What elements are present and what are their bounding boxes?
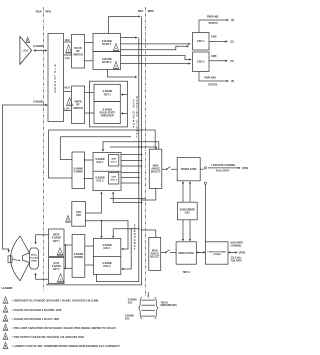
wire CDU2 PWR AND STATUS to (S) <box>199 72 228 82</box>
box MODULATOR 1 <box>177 158 200 181</box>
wire bus to X-band exc top (right) <box>113 229 139 238</box>
box CDU 1 <box>193 33 210 51</box>
svg-text:EXC 1: EXC 1 <box>104 247 112 250</box>
wire TWT join line <box>64 245 66 268</box>
wire X-TWT1 to feed (RCP) <box>36 235 49 243</box>
wire hybrid to x-exc 1 <box>85 245 94 247</box>
antenna HGA dish <box>11 236 21 281</box>
svg-text:OSC: OSC <box>76 214 81 217</box>
wire CDU1 PWR AND STATUS to (S) <box>199 20 228 33</box>
svg-text:STATUS: STATUS <box>208 84 218 87</box>
box S-BAND HYBRID <box>72 152 85 189</box>
wire hybrid to exciter 1 <box>85 159 94 161</box>
svg-text:TLM DATA: TLM DATA <box>231 260 243 263</box>
box S-BAND EXC 1 <box>95 158 105 164</box>
wire rcvr switch to rcvr 1 <box>85 41 94 43</box>
svg-text:(REDUNDANT): (REDUNDANT) <box>161 304 177 307</box>
svg-text:HGA: HGA <box>65 87 71 90</box>
box CDU 2 <box>193 52 210 72</box>
wire diplexer to xmtr switch (HGA) <box>64 90 72 92</box>
bus line 1 (VCO) with return into X-band exciters <box>96 38 138 282</box>
switch MAS2 to MOD2 <box>161 250 176 253</box>
svg-text:MODULATOR: MODULATOR <box>179 252 195 255</box>
svg-text:(RCP): (RCP) <box>53 235 60 237</box>
svg-text:= TWT OUTPUT FAILED ON VOYAGER: = TWT OUTPUT FAILED ON VOYAGER 1 IN JANU… <box>12 335 85 339</box>
wire RCVR2 to CDU2 <box>121 62 191 64</box>
svg-text:OSC 1: OSC 1 <box>110 161 117 163</box>
box XMTR RF SWITCH <box>72 86 85 124</box>
svg-text:EXC 2: EXC 2 <box>97 180 105 183</box>
svg-text:LGA: LGA <box>65 108 70 111</box>
wire USO to S-band exciter group <box>85 193 101 213</box>
svg-text:CMD: CMD <box>211 55 217 58</box>
label S-BAND EXC <box>128 299 137 305</box>
svg-text:X-BAND: X-BAND <box>52 265 61 268</box>
box USO <box>72 202 86 227</box>
svg-text:CODER: CODER <box>213 254 221 256</box>
legend item 3 <box>3 315 60 322</box>
wire exciter 2 output <box>121 177 139 179</box>
svg-text:CMD: CMD <box>211 36 217 39</box>
svg-text:CHANNEL,: CHANNEL, <box>231 245 243 248</box>
marker 5 in X-TWT 1 <box>57 248 64 256</box>
svg-text:= FAILED ON VOYAGER 2 IN APRIL: = FAILED ON VOYAGER 2 IN APRIL 1978 <box>12 308 62 312</box>
label TMU B (REDUNDANT) <box>161 302 177 307</box>
svg-text:OSC 2: OSC 2 <box>110 179 117 181</box>
svg-text:S-BAND: S-BAND <box>128 299 137 302</box>
wire S-band exc 2 to bus <box>113 193 141 203</box>
box X-BAND TWT 1 <box>49 229 65 257</box>
svg-text:DSA: DSA <box>36 10 42 14</box>
box X-BAND HYBRID <box>72 234 85 277</box>
svg-text:EXC 1: EXC 1 <box>97 161 105 164</box>
svg-text:115.2 kb/s: 115.2 kb/s <box>231 258 243 260</box>
svg-text:SUBCARRIER: SUBCARRIER <box>180 208 196 211</box>
wire rcvr group to MDS bus (top) <box>109 16 140 33</box>
svg-text:MODULATOR: MODULATOR <box>181 168 197 171</box>
svg-text:HGA: HGA <box>16 259 21 262</box>
wire S-band to HGA (left route) <box>3 105 48 252</box>
box S-BAND SOLID STATE AMPLIFIER <box>94 102 120 124</box>
svg-text:(LCP): (LCP) <box>53 263 59 265</box>
wire A: twt area to hybrid/MAS <box>49 130 156 178</box>
svg-text:CONVOLUTIONAL: CONVOLUTIONAL <box>207 250 227 253</box>
svg-text:X-BAND: X-BAND <box>125 315 134 318</box>
svg-text:PWR AND: PWR AND <box>205 76 217 79</box>
svg-text:S-BAND: S-BAND <box>33 100 43 104</box>
wire x-twt1 to hybrid <box>64 244 72 246</box>
svg-text:EXC: EXC <box>125 319 130 321</box>
svg-text:POLAR: POLAR <box>30 257 38 260</box>
wire RCVR2 to CDU2 (crossover) <box>121 55 191 59</box>
svg-text:SELECT: SELECT <box>150 256 160 259</box>
wire exciter drive to TWT 1 <box>122 94 128 96</box>
svg-text:(S): (S) <box>231 41 234 44</box>
wire A into MAS1 top <box>154 130 156 149</box>
svg-text:S-BAND: S-BAND <box>33 44 43 48</box>
divider exciter group <box>93 170 121 172</box>
box CONVOLUTIONAL CODER <box>205 242 228 264</box>
wire exciter aux line to MAS1 <box>110 147 157 149</box>
box S-BAND EXC 2 <box>95 177 105 183</box>
svg-text:(FDS): (FDS) <box>239 252 245 254</box>
marker 5 at USO <box>65 215 71 222</box>
svg-text:RCVR 2: RCVR 2 <box>102 61 112 64</box>
svg-text:OSC: OSC <box>185 212 190 214</box>
svg-text:HIGH-RATE: HIGH-RATE <box>231 242 244 245</box>
box DUAL POLAR FEED <box>30 248 39 269</box>
wire hybrid to x-exc 2 <box>85 264 94 266</box>
svg-text:HYBRID: HYBRID <box>74 256 83 259</box>
svg-text:TMU B: TMU B <box>161 302 169 304</box>
svg-text:(S): (S) <box>231 19 234 22</box>
outer box S-BAND EXCITERS <box>93 152 121 190</box>
svg-text:(S): (S) <box>231 60 234 63</box>
svg-text:(S): (S) <box>231 80 234 83</box>
box MODULATOR 2 (TMU A) <box>176 242 196 264</box>
box AUX OSC 1 <box>109 154 119 166</box>
svg-text:= TRK LOOP CAPACITOR ON VOYAGE: = TRK LOOP CAPACITOR ON VOYAGER 2 FAILED… <box>12 326 116 330</box>
label X-BAND EXC 1 <box>102 244 112 250</box>
box S-BAND TWT 1 <box>94 84 120 101</box>
legend item 2 <box>3 306 62 313</box>
marker 1 at LGA <box>25 37 30 43</box>
wire exciter group top feed / MAS1 <box>103 142 159 151</box>
wire exciter 2 output <box>121 172 139 174</box>
svg-text:SWITCH: SWITCH <box>73 53 83 56</box>
svg-text:LGA: LGA <box>65 57 70 60</box>
divider RFS/MDS (dash-dot) <box>145 7 147 296</box>
wire B: twt area to hybrid <box>60 137 131 160</box>
wire to X-band exc 2 drive <box>122 229 131 269</box>
wire SCO to MOD2 <box>182 220 184 241</box>
marker 4 in RCVR 1 <box>113 44 120 52</box>
wire RCVR2 VCO to bus (bottom exit) <box>107 70 135 78</box>
wire bus to MAS 2 top <box>142 230 156 237</box>
svg-text:SELECT: SELECT <box>151 171 161 174</box>
bus line 2 (select) with return to X-band TWT 2 <box>47 16 142 285</box>
label FREQUENCY (stacked) <box>134 224 136 251</box>
box X-BAND EXCITERS group <box>93 238 120 274</box>
svg-text:LGA: LGA <box>23 49 29 53</box>
wire xmtr switch to twt 1 <box>85 92 95 94</box>
svg-text:AUX: AUX <box>111 176 116 179</box>
wire xmtr switch to ssa <box>85 112 95 114</box>
wire crossing line <box>110 198 146 200</box>
svg-text:TWT 1: TWT 1 <box>103 93 111 96</box>
wire diplexer to xmtr switch (LGA) <box>64 110 72 112</box>
divider DSA/RFS (dash-dot) <box>43 7 45 291</box>
wire exciter 1 output <box>121 154 142 156</box>
svg-text:EXC 2: EXC 2 <box>104 265 112 268</box>
wire X-TWT2 to feed (LCP) <box>36 274 49 280</box>
divider X-band exciters <box>93 256 120 258</box>
svg-text:LEGEND:: LEGEND: <box>2 286 14 290</box>
svg-text:40 b/s DATA: 40 b/s DATA <box>216 169 230 172</box>
box S-BAND RCVR 1 <box>93 34 121 52</box>
switch MAS1 to MOD1 <box>162 167 177 170</box>
svg-text:RFS: RFS <box>46 10 52 14</box>
switch alternate throw down <box>204 182 206 184</box>
box SUBCARRIER OSC <box>177 202 197 220</box>
svg-text:G: G <box>136 115 138 118</box>
wire RCVR1 to CDU1 <box>121 43 191 45</box>
wire diplexer to rcvr switch (HGA) <box>64 41 72 43</box>
wire diplexer to rcvr switch (LGA) <box>64 54 72 56</box>
svg-text:EXC: EXC <box>128 303 133 305</box>
wire down into X-band exc top (left) <box>100 221 102 238</box>
svg-text:= FAILED ON VOYAGER 1 IN OCT 1: = FAILED ON VOYAGER 1 IN OCT 1987 <box>12 317 60 321</box>
label RANGING SIGNAL (stacked) <box>136 97 138 139</box>
svg-text:DUAL: DUAL <box>31 254 38 257</box>
label X-BAND EXC <box>125 315 134 321</box>
box DIPLEXERS <box>48 34 64 122</box>
legend item 6 <box>3 342 121 349</box>
svg-text:SWITCH: SWITCH <box>73 107 83 110</box>
svg-text:= SWITCHED TO L/P MODE (VOYAGE: = SWITCHED TO L/P MODE (VOYAGER 1 IN 9/8… <box>12 299 99 303</box>
svg-text:PWR AND: PWR AND <box>207 16 219 19</box>
legend item 5 <box>3 333 85 340</box>
box X-BAND TWT 2 <box>49 258 65 284</box>
svg-text:LOW-RATE CHANNEL,: LOW-RATE CHANNEL, <box>212 164 237 167</box>
box RCVR RF SWITCH <box>72 35 85 69</box>
legend item 4 <box>3 324 116 331</box>
svg-text:TWT 2: TWT 2 <box>53 269 61 271</box>
outer box S-BAND TWT group <box>90 81 128 127</box>
svg-text:CDU 2: CDU 2 <box>197 61 205 64</box>
label VCO OUTPUT (stacked) <box>133 100 135 130</box>
svg-text:(FDS): (FDS) <box>242 168 248 170</box>
wire LGA to diplexer (two-way) <box>34 49 48 51</box>
svg-text:STATUS: STATUS <box>209 22 219 25</box>
svg-text:TWT 1: TWT 1 <box>53 241 61 243</box>
wire rcvr switch to rcvr 2 <box>85 60 94 62</box>
marker 2 (rcvr path) <box>65 45 72 53</box>
svg-text:O: O <box>133 105 135 108</box>
svg-text:RFS: RFS <box>138 9 144 13</box>
box AUX OSC 2 <box>109 172 119 184</box>
box MOD ANGLE SELECT 2 <box>149 237 161 270</box>
wire bus to MAS 1 bottom <box>142 189 156 201</box>
HGA dish rays <box>20 236 29 281</box>
wire coder high-rate channel <box>228 251 238 253</box>
svg-text:FEED: FEED <box>31 261 37 263</box>
bundle TMU B (redundant) <box>139 292 158 319</box>
antenna LGA <box>20 36 32 64</box>
wire hybrid to exciter 2 <box>85 178 94 180</box>
svg-text:AMPLIFIER: AMPLIFIER <box>101 114 114 117</box>
marker 3 in RCVR 2 <box>113 62 120 70</box>
svg-text:X-BAND: X-BAND <box>52 237 61 240</box>
HGA feed horn <box>23 253 30 263</box>
wire RCVR1 to CDU1 (crossover) <box>121 46 188 50</box>
wire MOD2 to coder (two-way) <box>196 251 205 253</box>
marker 2 in X-TWT 2 <box>57 274 64 283</box>
wire exciter 2 output <box>121 182 139 184</box>
marker 1 (xmtr path) <box>66 98 73 106</box>
svg-text:TMU A: TMU A <box>182 271 190 274</box>
wire USO to X-band exciter 1 drive <box>85 221 128 249</box>
svg-text:CDU 1: CDU 1 <box>197 40 205 43</box>
label X-BAND EXC 2 <box>102 262 112 268</box>
svg-text:AUX: AUX <box>111 158 116 161</box>
box sub-reflector <box>8 256 12 263</box>
svg-text:RCVR 1: RCVR 1 <box>102 43 112 46</box>
wire x-twt2 to hybrid <box>64 267 72 269</box>
wire exciter drive to SSA <box>122 113 128 115</box>
svg-text:= LOWEST COST IN USE; COMMUNIC: = LOWEST COST IN USE; COMMUNICATIONS RAN… <box>12 344 121 348</box>
wire MOD1 low-rate output with switch <box>200 168 203 170</box>
svg-text:MDS: MDS <box>148 9 154 13</box>
box MOD ANGLE SELECT 1 <box>149 149 162 188</box>
wire RCVR1 VCO to bus <box>121 36 138 38</box>
svg-text:HYBRID: HYBRID <box>74 171 83 174</box>
legend item 1 <box>3 297 99 304</box>
wire exciter 1 output <box>121 165 142 167</box>
box S-BAND RCVR 2 <box>93 52 121 70</box>
wire exciter 1 output <box>121 160 142 162</box>
wire SCO to MOD1 <box>182 182 184 202</box>
label HIGH-RATE CHANNEL <box>231 242 244 248</box>
